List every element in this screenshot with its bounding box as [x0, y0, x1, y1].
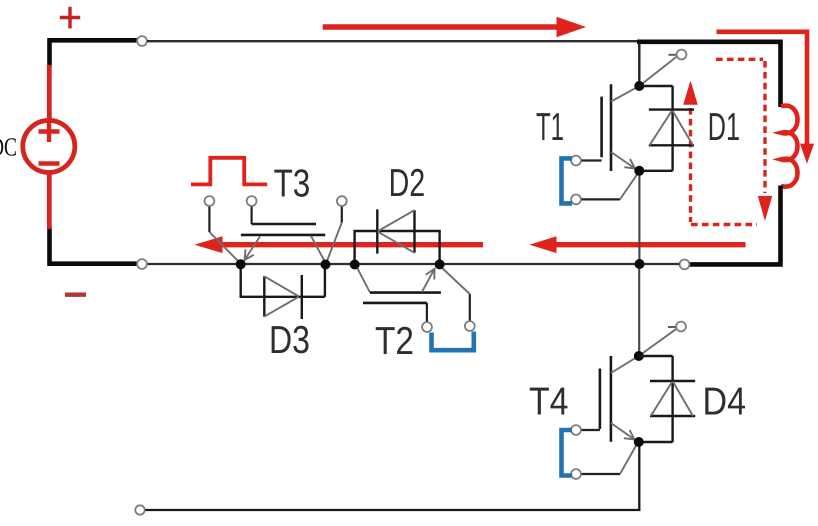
junction: middle rail node at T3 collector — [321, 260, 331, 270]
diode D4 — [639, 356, 695, 442]
arrow: top current arrow pointing right (red) — [323, 17, 586, 37]
label: plus sign top-left (red) — [60, 7, 80, 29]
gate-emitter short: blue bracket T1 — [562, 158, 573, 203]
diode D2 cathode bar — [376, 209, 378, 253]
igbt T1 gate bar — [600, 97, 603, 158]
wire: T4 gate lead — [581, 429, 600, 431]
pulse waveform: gate pulse symbol near T3 (red) — [191, 158, 267, 185]
arrow: dashed-loop up arrowhead left of D1 — [683, 81, 698, 105]
diode D4 triangle edges — [651, 382, 693, 416]
junction: middle rail node at D2 left — [350, 260, 360, 270]
gate-emitter short: blue bracket T4 — [562, 430, 573, 476]
wire: right side thick below coil to bottom-right corner — [690, 186, 781, 265]
wire: top rail thin middle segment — [147, 40, 637, 42]
junction: middle rail node at T3 emitter — [236, 259, 246, 269]
junction: middle rail node at D2 right — [435, 259, 445, 269]
wire: T1 auxiliary collector stub — [669, 54, 677, 56]
wire: top rail thick left segment with corner to DC source — [50, 40, 138, 67]
wire: D3 inner link — [262, 296, 325, 298]
diode D4 anode bar — [650, 415, 695, 417]
terminal: T2 auxiliary emitter — [465, 321, 475, 331]
wire: T4 auxiliary collector stub — [668, 326, 676, 328]
wire: T3 auxiliary collector lead — [341, 206, 343, 222]
wire: D4 cathode connection — [639, 355, 673, 357]
junction: T4 collector node — [634, 351, 644, 361]
wire: T1 auxiliary emitter lead — [581, 198, 620, 200]
wire: D4 anode connection — [643, 441, 673, 443]
wire: D1 center lead — [671, 86, 673, 171]
igbt T3 body bar — [241, 234, 325, 237]
diode D1 triangle edges — [650, 111, 693, 146]
terminal: T1 auxiliary collector — [677, 50, 687, 60]
terminal: T4 auxiliary collector — [676, 322, 686, 332]
label: minus sign bottom-left (red) — [65, 293, 86, 297]
wire: bottom return rail — [145, 444, 639, 510]
terminal: T4 gate — [571, 425, 581, 435]
svg-text:T4: T4 — [529, 381, 569, 424]
diode D2 triangle edges — [378, 210, 415, 253]
diode D2 anode edge — [413, 210, 415, 253]
wire: D3 cathode connection — [324, 265, 326, 297]
arrow: dashed-loop down arrowhead right of D1 — [758, 196, 772, 221]
wire: T1 auxiliary emitter diagonal — [620, 175, 637, 200]
diode D2 (above rail) — [355, 209, 440, 262]
terminal: T1 auxiliary emitter — [571, 195, 581, 205]
wire: T1 emitter diagonal with arrow — [611, 152, 635, 169]
wire: T3 collector diagonal — [311, 236, 325, 261]
svg-text:D2: D2 — [389, 162, 426, 205]
gate-emitter short: blue bracket T2 — [432, 332, 474, 351]
terminal: open circle bottom rail left end — [135, 505, 144, 514]
igbt T4 body bar — [610, 356, 613, 442]
wire: T4 auxiliary emitter lead — [581, 473, 620, 475]
svg-text:D3: D3 — [269, 319, 310, 362]
igbt T1 — [562, 50, 687, 205]
igbt T1 collector leg from top rail — [638, 44, 640, 83]
freewheel loop: dashed red path around D1 — [691, 59, 766, 224]
diode D3 triangle edges — [264, 276, 298, 316]
wire: T1 collector diagonal — [611, 87, 637, 101]
junction: T1 collector node — [634, 81, 644, 91]
wire: T2 emitter diagonal with arrow — [422, 269, 435, 292]
junction: T4 emitter node — [634, 437, 644, 447]
svg-text:T1: T1 — [536, 106, 564, 149]
terminal: open circle right end of middle rail — [680, 260, 690, 270]
svg-text:DC: DC — [0, 133, 17, 162]
igbt T2 (horizontal, below rail) — [357, 267, 475, 351]
terminal: T3 auxiliary emitter — [205, 196, 215, 206]
diode D3 (below rail) — [241, 264, 325, 319]
igbt T2 gate bar — [363, 302, 427, 305]
wire: T1 emitter leg down to middle rail — [638, 176, 640, 261]
wire: T2 gate lead — [426, 303, 428, 322]
arrow: middle-left current arrow pointing left (red) — [195, 236, 484, 253]
dc source: red feed wires, circle and polarity marks — [23, 65, 75, 229]
igbt T3 (horizontal, in middle rail) — [205, 196, 347, 261]
wire: T3 gate lead — [251, 206, 253, 224]
diode D4 cathode bar — [650, 380, 695, 382]
wire: D3 anode connection — [241, 264, 262, 297]
terminal: T1 gate — [571, 156, 581, 166]
igbt T4 gate bar — [599, 369, 602, 430]
terminal: T3 gate — [247, 196, 257, 206]
diode D3 anode edge — [263, 276, 265, 316]
terminal: top-left open circle on top rail — [137, 36, 147, 46]
wire: D1 anode connection — [643, 170, 673, 172]
svg-text:D1: D1 — [708, 106, 740, 149]
wire: T3 auxiliary emitter diagonal — [209, 232, 238, 262]
wire: T3 emitter diagonal with arrow — [245, 237, 261, 261]
wire: middle rail thin — [147, 263, 680, 265]
wire: bottom-left thick segment from DC source to terminal — [50, 227, 137, 264]
igbt T4 — [562, 322, 686, 479]
wire: top rail thick right segment turning down at load — [637, 42, 781, 107]
wire: T2 auxiliary emitter diagonal — [441, 267, 470, 295]
svg-text:D4: D4 — [703, 381, 747, 424]
junction: middle rail node at phase leg — [635, 259, 645, 269]
diode D1 anode bar — [649, 144, 694, 146]
wire: T4 collector diagonal — [611, 357, 637, 373]
svg-text:T2: T2 — [375, 320, 414, 363]
wire: T4 emitter diagonal with arrow — [611, 423, 635, 440]
igbt T2 body bar — [370, 291, 441, 294]
terminal: open circle left end of middle rail — [137, 259, 147, 269]
wire: D1 cathode connection — [639, 85, 672, 87]
diode D3 cathode bar — [301, 275, 303, 319]
diode D1 cathode bar — [649, 108, 694, 110]
arrow: middle-right current arrow pointing left (red) — [530, 236, 746, 253]
wire: T2 auxiliary emitter lead — [469, 294, 471, 321]
diode D1 — [639, 86, 694, 171]
wire: T3 auxiliary emitter lead — [208, 206, 210, 232]
wire: T2 collector diagonal — [357, 267, 371, 293]
terminal: T4 auxiliary emitter — [571, 469, 581, 479]
wire: T4 leg from middle rail — [638, 266, 640, 352]
wire: T1 gate lead — [581, 159, 602, 161]
wire: T4 auxiliary emitter diagonal — [620, 445, 637, 475]
terminal: T3 auxiliary collector — [337, 196, 347, 206]
svg-text:T3: T3 — [274, 162, 311, 205]
inductor: load coil (red) on right side — [781, 106, 798, 187]
wire: D2 loop — [355, 231, 440, 262]
wire: T4 auxiliary collector diagonal — [639, 329, 677, 356]
igbt T1 body bar — [610, 84, 613, 171]
terminal: T2 gate — [422, 322, 432, 332]
igbt T3 gate bar — [252, 223, 316, 226]
wire: T1 auxiliary collector diagonal — [639, 57, 677, 87]
arrow: top-right elbow arrow into load (red) — [717, 32, 815, 164]
wire: T3 auxiliary collector diagonal — [327, 223, 342, 262]
junction: T1 emitter node — [634, 166, 644, 176]
wire: D4 center lead — [671, 356, 673, 442]
